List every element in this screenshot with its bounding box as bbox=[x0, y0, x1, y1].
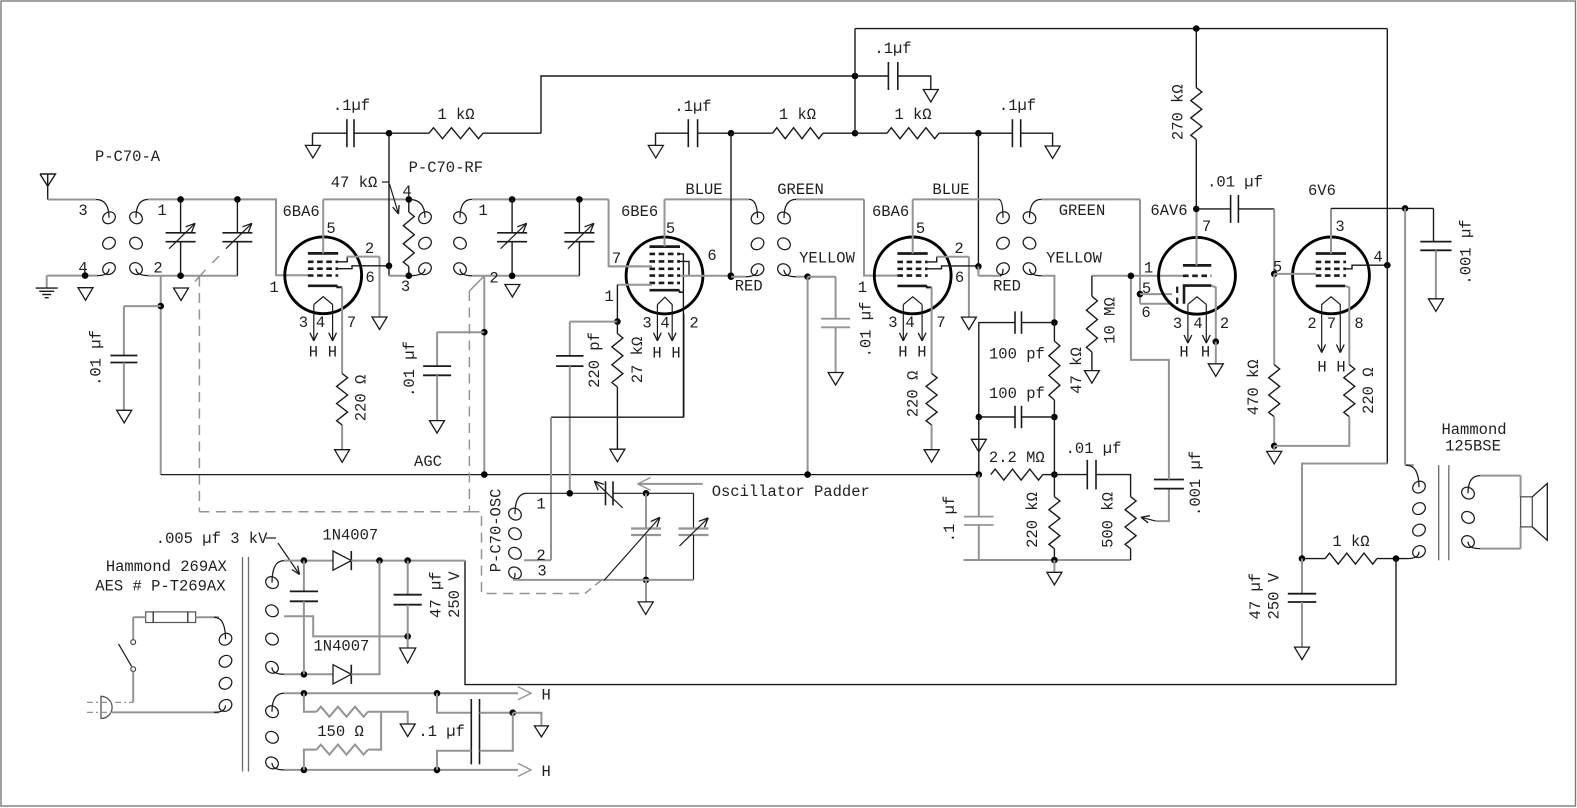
svg-text:AGC: AGC bbox=[414, 453, 442, 471]
svg-text:Hammond: Hammond bbox=[1441, 421, 1506, 439]
svg-text:H: H bbox=[1336, 359, 1345, 377]
svg-text:47 kΩ: 47 kΩ bbox=[1068, 347, 1086, 394]
svg-text:2: 2 bbox=[954, 240, 963, 258]
svg-text:H: H bbox=[671, 345, 680, 363]
svg-text:47 µf: 47 µf bbox=[1247, 573, 1265, 620]
svg-text:H: H bbox=[652, 345, 661, 363]
svg-text:8: 8 bbox=[1354, 315, 1363, 333]
svg-text:H: H bbox=[1201, 344, 1210, 362]
svg-text:4: 4 bbox=[402, 183, 411, 201]
svg-text:3: 3 bbox=[888, 314, 897, 332]
svg-text:Oscillator Padder: Oscillator Padder bbox=[712, 483, 870, 501]
svg-text:1: 1 bbox=[269, 279, 278, 297]
svg-text:YELLOW: YELLOW bbox=[1046, 250, 1103, 268]
svg-text:100 pf: 100 pf bbox=[989, 346, 1045, 364]
svg-text:.1µf: .1µf bbox=[874, 40, 911, 58]
svg-text:P-C70-A: P-C70-A bbox=[95, 148, 161, 166]
svg-text:BLUE: BLUE bbox=[932, 181, 969, 199]
svg-text:.01 µf: .01 µf bbox=[401, 341, 419, 397]
svg-text:220 Ω: 220 Ω bbox=[352, 375, 370, 422]
svg-text:.1µf: .1µf bbox=[674, 98, 711, 116]
svg-text:6: 6 bbox=[955, 269, 964, 287]
svg-text:250 V: 250 V bbox=[1265, 572, 1283, 619]
svg-text:250 V: 250 V bbox=[446, 571, 464, 618]
svg-text:P-C70-RF: P-C70-RF bbox=[409, 159, 483, 177]
svg-text:3: 3 bbox=[401, 278, 410, 296]
svg-text:6BA6: 6BA6 bbox=[872, 203, 909, 221]
svg-text:H: H bbox=[309, 343, 318, 361]
svg-text:1 kΩ: 1 kΩ bbox=[1332, 533, 1369, 551]
svg-text:6BA6: 6BA6 bbox=[283, 203, 320, 221]
svg-text:1: 1 bbox=[157, 202, 166, 220]
svg-text:125BSE: 125BSE bbox=[1445, 438, 1501, 456]
svg-text:5: 5 bbox=[326, 220, 335, 238]
svg-text:2: 2 bbox=[689, 315, 698, 333]
svg-text:220 Ω: 220 Ω bbox=[904, 371, 922, 418]
svg-text:1 kΩ: 1 kΩ bbox=[779, 106, 816, 124]
svg-text:47 µf: 47 µf bbox=[428, 571, 446, 618]
svg-text:4: 4 bbox=[78, 260, 87, 278]
svg-text:H: H bbox=[1317, 359, 1326, 377]
svg-text:6AV6: 6AV6 bbox=[1150, 202, 1187, 220]
svg-text:27 kΩ: 27 kΩ bbox=[629, 337, 647, 384]
svg-text:3: 3 bbox=[78, 202, 87, 220]
svg-text:H: H bbox=[542, 687, 551, 705]
svg-text:3: 3 bbox=[537, 563, 546, 581]
svg-text:RED: RED bbox=[993, 278, 1021, 296]
svg-text:5: 5 bbox=[666, 220, 675, 238]
svg-text:6BE6: 6BE6 bbox=[621, 203, 658, 221]
svg-text:1N4007: 1N4007 bbox=[322, 527, 378, 545]
svg-text:2: 2 bbox=[1307, 315, 1316, 333]
svg-text:1: 1 bbox=[604, 288, 613, 306]
svg-text:4: 4 bbox=[1373, 249, 1382, 267]
svg-text:7: 7 bbox=[936, 314, 945, 332]
svg-text:H: H bbox=[328, 343, 337, 361]
svg-text:5: 5 bbox=[1273, 259, 1282, 277]
svg-text:500 kΩ: 500 kΩ bbox=[1099, 492, 1117, 548]
svg-text:H: H bbox=[542, 763, 551, 781]
svg-text:270 kΩ: 270 kΩ bbox=[1170, 84, 1188, 140]
svg-text:4: 4 bbox=[1193, 315, 1202, 333]
svg-text:4: 4 bbox=[905, 314, 914, 332]
svg-text:220 kΩ: 220 kΩ bbox=[1024, 492, 1042, 548]
svg-text:1: 1 bbox=[1144, 259, 1153, 277]
svg-text:1 kΩ: 1 kΩ bbox=[894, 106, 931, 124]
svg-text:1: 1 bbox=[536, 496, 545, 514]
svg-text:H: H bbox=[1179, 344, 1188, 362]
svg-text:2: 2 bbox=[1220, 315, 1229, 333]
svg-text:6: 6 bbox=[365, 269, 374, 287]
svg-text:BLUE: BLUE bbox=[685, 181, 722, 199]
svg-text:AES # P-T269AX: AES # P-T269AX bbox=[95, 578, 226, 596]
svg-text:1: 1 bbox=[858, 279, 867, 297]
svg-text:7: 7 bbox=[1327, 315, 1336, 333]
svg-text:YELLOW: YELLOW bbox=[799, 250, 856, 268]
svg-text:2: 2 bbox=[489, 270, 498, 288]
svg-text:3: 3 bbox=[1173, 315, 1182, 333]
svg-text:7: 7 bbox=[1202, 218, 1211, 236]
svg-text:1N4007: 1N4007 bbox=[313, 638, 369, 656]
svg-text:2: 2 bbox=[365, 240, 374, 258]
svg-text:6V6: 6V6 bbox=[1308, 182, 1336, 200]
svg-text:Hammond 269AX: Hammond 269AX bbox=[106, 558, 228, 576]
svg-text:H: H bbox=[917, 343, 926, 361]
svg-text:.01 µf: .01 µf bbox=[1066, 440, 1122, 458]
svg-text:1: 1 bbox=[478, 202, 487, 220]
svg-text:GREEN: GREEN bbox=[777, 181, 824, 199]
svg-text:P-C70-OSC: P-C70-OSC bbox=[488, 489, 506, 573]
svg-text:6: 6 bbox=[707, 247, 716, 265]
svg-text:470 kΩ: 470 kΩ bbox=[1245, 359, 1263, 415]
svg-text:220 Ω: 220 Ω bbox=[1360, 367, 1378, 414]
svg-text:.1 µf: .1 µf bbox=[418, 723, 465, 741]
svg-text:.1µf: .1µf bbox=[333, 97, 370, 115]
svg-text:5: 5 bbox=[916, 220, 925, 238]
svg-text:1 kΩ: 1 kΩ bbox=[437, 106, 474, 124]
svg-text:.01 µf: .01 µf bbox=[1207, 174, 1263, 192]
svg-text:.01 µf: .01 µf bbox=[857, 302, 875, 358]
svg-text:2.2 MΩ: 2.2 MΩ bbox=[989, 449, 1045, 467]
svg-text:220 pf: 220 pf bbox=[586, 332, 604, 388]
svg-text:7: 7 bbox=[612, 250, 621, 268]
svg-text:GREEN: GREEN bbox=[1059, 202, 1106, 220]
svg-text:100 pf: 100 pf bbox=[989, 385, 1045, 403]
svg-text:RED: RED bbox=[735, 278, 763, 296]
svg-text:.005 µf 3 kV: .005 µf 3 kV bbox=[156, 530, 268, 548]
svg-text:47 kΩ: 47 kΩ bbox=[331, 174, 378, 192]
svg-text:.01 µf: .01 µf bbox=[88, 330, 106, 386]
svg-text:5: 5 bbox=[1142, 280, 1151, 298]
svg-text:3: 3 bbox=[299, 314, 308, 332]
svg-text:.001 µf: .001 µf bbox=[1187, 451, 1205, 516]
svg-text:10 MΩ: 10 MΩ bbox=[1102, 297, 1120, 344]
svg-text:6: 6 bbox=[1141, 304, 1150, 322]
svg-text:.001 µf: .001 µf bbox=[1457, 219, 1475, 284]
svg-text:4: 4 bbox=[660, 315, 669, 333]
svg-text:3: 3 bbox=[642, 315, 651, 333]
svg-text:.1 µf: .1 µf bbox=[941, 496, 959, 543]
svg-text:150 Ω: 150 Ω bbox=[317, 723, 364, 741]
svg-text:7: 7 bbox=[347, 314, 356, 332]
svg-text:3: 3 bbox=[1335, 218, 1344, 236]
svg-text:.1µf: .1µf bbox=[999, 97, 1036, 115]
svg-text:4: 4 bbox=[316, 314, 325, 332]
svg-text:H: H bbox=[898, 343, 907, 361]
